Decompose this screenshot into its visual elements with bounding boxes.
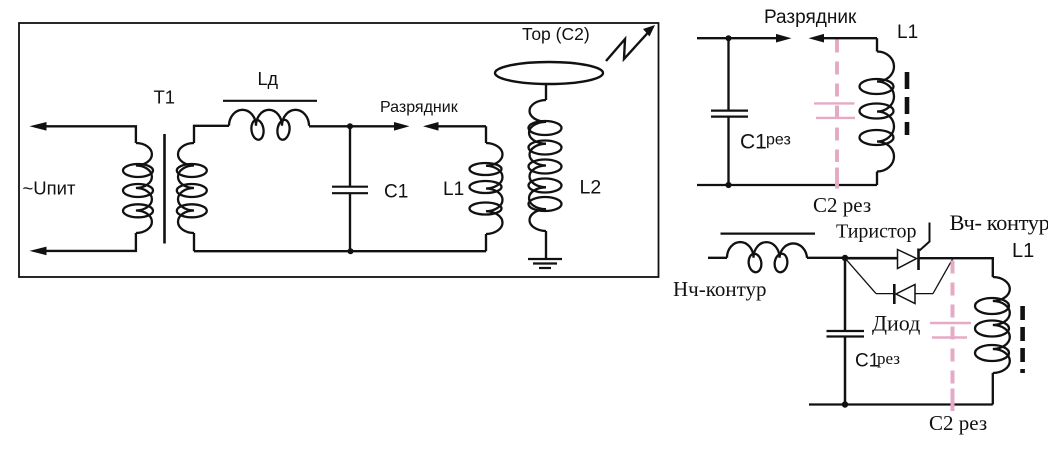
- svg-text:С2 рез: С2 рез: [813, 193, 871, 217]
- choke coil Нч: [727, 242, 807, 258]
- transformer T1 primary loops: [123, 164, 153, 177]
- transformer T1 secondary winding: [178, 143, 194, 233]
- svg-text:С2 рез: С2 рез: [929, 411, 987, 435]
- coil L1 (top-right): [877, 52, 894, 172]
- capacitor C1rez plates (bottom-right): [827, 330, 865, 332]
- svg-text:Разрядник: Разрядник: [380, 99, 459, 116]
- svg-text:Нч-контур: Нч-контур: [673, 277, 767, 301]
- choke hanging loops: [747, 253, 762, 273]
- transformer T1 primary winding: [136, 143, 152, 233]
- Ld hanging loops: [250, 119, 265, 140]
- dashed core (top-right): [905, 72, 910, 135]
- spark gap left-pointing arrow: [423, 122, 439, 131]
- svg-text:Тиристор: Тиристор: [836, 221, 916, 243]
- L1 bottom lead (bottom-right): [992, 373, 994, 405]
- L1 bottom lead: [485, 234, 487, 251]
- dashed core (bottom-right): [1020, 306, 1025, 373]
- svg-text:~Uпит: ~Uпит: [23, 178, 77, 199]
- C1rez branch bottom (bottom-right): [844, 337, 847, 405]
- bottom rail (bottom-right): [809, 403, 993, 405]
- svg-text:Lд: Lд: [258, 69, 279, 89]
- capacitor C1 bottom lead: [349, 193, 351, 251]
- pink dashed line C2rez (bottom-right): [951, 261, 955, 385]
- L1 top lead (top-right): [876, 38, 878, 51]
- diode right lead: [915, 293, 933, 295]
- capacitor C1 top lead: [349, 126, 351, 187]
- ground: [528, 258, 562, 260]
- lightning bolt: [606, 32, 649, 62]
- diode cathode bar: [893, 284, 896, 304]
- L1 loops (bottom-right): [975, 298, 1009, 314]
- wire node to thyristor: [845, 257, 898, 260]
- pink capacitor C2rez plates: [814, 102, 855, 104]
- coil L1 (bottom-right): [993, 277, 1010, 373]
- svg-text:рез: рез: [877, 349, 900, 368]
- svg-text:C1: C1: [384, 181, 408, 202]
- bottom rail (top-right): [697, 184, 877, 186]
- svg-text:Разрядник: Разрядник: [764, 7, 857, 28]
- thyristor gate: [920, 223, 930, 251]
- wire bottom-left from transformer: [45, 233, 136, 251]
- coil L2: [529, 100, 546, 231]
- choke left lead: [708, 257, 727, 259]
- diode diagonal right: [933, 258, 953, 293]
- wire toroid to L2: [545, 84, 547, 100]
- C1rez left branch: [727, 38, 729, 110]
- thyristor VS1 triangle: [898, 250, 917, 269]
- L1 bottom lead (top-right): [876, 172, 878, 186]
- top rail right segment with arrow: [809, 34, 825, 43]
- spark gap right-pointing arrow: [350, 125, 395, 127]
- wire choke to node: [807, 257, 845, 259]
- svg-text:Диод: Диод: [872, 311, 920, 336]
- node junction bottom (bottom-right): [842, 401, 848, 407]
- inductor Ld: [229, 110, 309, 126]
- arrow top-left: [30, 122, 47, 131]
- transformer T1 secondary loops: [177, 164, 207, 177]
- svg-text:С1: С1: [855, 351, 879, 372]
- arrow bottom-left: [30, 247, 47, 256]
- svg-text:С1: С1: [740, 131, 767, 154]
- C1rez branch top (bottom-right): [844, 258, 847, 330]
- node junction left (bottom-right): [842, 255, 848, 261]
- toroid top load: [495, 62, 603, 84]
- pink dashed line C2rez: [835, 40, 839, 163]
- node junction bottom of C1rez: [725, 182, 731, 188]
- pink capacitor C2rez plates (bottom-right): [930, 322, 971, 324]
- transformer T1 core: [163, 134, 166, 244]
- L1 loops (box): [470, 163, 502, 175]
- capacitor C1 plates: [332, 186, 368, 188]
- C1rez lower lead: [727, 117, 729, 185]
- svg-text:L1: L1: [1012, 240, 1034, 262]
- svg-text:Вч- контур: Вч- контур: [950, 210, 1048, 235]
- node junction bottom of C1: [348, 248, 354, 254]
- node junction top of C1rez: [726, 35, 732, 41]
- wire L2 to ground: [545, 231, 547, 258]
- wire transformer to Ld: [194, 126, 229, 143]
- transformer secondary bottom lead: [193, 233, 195, 251]
- diode VD1 triangle: [896, 285, 915, 304]
- L2 loops: [529, 121, 562, 135]
- svg-text:T1: T1: [154, 86, 176, 107]
- capacitor C1rez plates (top-right): [711, 109, 748, 111]
- svg-text:L2: L2: [580, 177, 602, 199]
- wire thyristor to L1: [919, 258, 993, 277]
- L1 loops (top-right): [860, 79, 894, 94]
- thyristor cathode bar: [917, 249, 920, 271]
- svg-text:L1: L1: [443, 179, 464, 200]
- svg-text:Тор (C2): Тор (C2): [522, 24, 590, 44]
- diode diagonal left: [845, 258, 876, 293]
- top rail left segment with arrow: [697, 37, 778, 39]
- svg-text:L1: L1: [897, 22, 918, 43]
- wire top-left to transformer: [45, 126, 136, 143]
- node junction top of C1: [347, 123, 353, 129]
- choke overline: [721, 233, 816, 235]
- enclosure box: [19, 23, 659, 277]
- L1 top lead: [485, 126, 487, 143]
- svg-text:рез: рез: [766, 132, 791, 149]
- bottom rail: [194, 250, 486, 252]
- coil L1 (box): [486, 143, 502, 234]
- Ld overline: [223, 100, 317, 102]
- diode left lead: [876, 293, 894, 295]
- wire Ld to node: [309, 125, 350, 127]
